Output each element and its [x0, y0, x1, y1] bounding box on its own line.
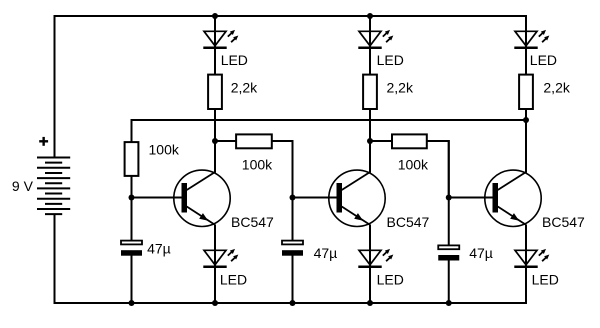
wire: stage 2 capacitor lower lead to ground rail: [292, 255, 294, 304]
junction node top rail / D1 anode: [212, 13, 218, 19]
wire: stage 3 base node column down to capacitor: [448, 140, 450, 246]
wire: stage 2 emitter column (transistor through LED to ground rail): [369, 224, 371, 304]
junction node stage 3 base: [446, 195, 452, 201]
junction node stage 2 base: [290, 195, 296, 201]
resistor R2 100k (stage 1 base bias): [125, 142, 139, 176]
wire: feedback from Q3 collector node to R2 (y=120): [132, 119, 527, 121]
svg-text:LED: LED: [221, 52, 248, 68]
wire: stage 3 base wire: [449, 197, 494, 199]
transistor Q3 (BC547, NPN): [485, 170, 541, 226]
junction node ground rail / C2: [290, 300, 296, 306]
wire: stage 1 capacitor lower lead to ground rail: [131, 255, 133, 304]
junction node ground rail / stage 1 LED cathode: [212, 300, 218, 306]
capacitor C1 (47µ electrolytic): [121, 241, 142, 256]
svg-text:2,2k: 2,2k: [387, 80, 414, 96]
svg-text:BC547: BC547: [387, 214, 430, 230]
capacitor C3 (47µ electrolytic): [438, 245, 459, 260]
wire: stage 1 base node column down to capacitor: [131, 177, 133, 242]
svg-text:2,2k: 2,2k: [231, 80, 258, 96]
wire: stage 2 collector column (top rail through LED and 2.2k to transistor): [369, 15, 371, 173]
svg-text:9 V: 9 V: [12, 178, 34, 194]
LED D3 (top LED): [358, 30, 393, 48]
transistor Q2 (BC547, NPN): [329, 170, 385, 226]
LED D4 (bottom LED): [358, 249, 393, 267]
LED D1 (top LED): [203, 30, 238, 48]
junction node Q2 collector branch: [367, 138, 373, 144]
battery BT1 9V multi-cell: [37, 158, 70, 215]
wire: R3 to Q2 base node: [272, 141, 293, 198]
svg-text:BC547: BC547: [231, 214, 274, 230]
svg-text:LED: LED: [532, 272, 559, 288]
svg-text:100k: 100k: [242, 156, 273, 172]
junction node ground rail / stage 2 LED cathode: [367, 300, 373, 306]
svg-text:LED: LED: [377, 272, 404, 288]
resistor R4 2.2k: [363, 75, 377, 109]
resistor R1 2.2k: [208, 75, 222, 109]
junction node stage 1 base: [129, 195, 135, 201]
transistor Q1 (BC547, NPN): [174, 170, 230, 226]
svg-text:100k: 100k: [398, 156, 429, 172]
junction node Q1 collector branch: [212, 138, 218, 144]
junction node ground rail / C1: [129, 300, 135, 306]
capacitor C2 (47µ electrolytic): [282, 241, 303, 256]
svg-text:100k: 100k: [149, 142, 180, 158]
svg-text:LED: LED: [377, 52, 404, 68]
wire: stage 3 collector column (top rail through LED and 2.2k to transistor): [525, 15, 527, 173]
junction node ground rail / C3: [446, 300, 452, 306]
wire: stage 1 base wire: [132, 197, 183, 199]
wire: stage 2 base node column down to capacitor: [292, 140, 294, 241]
wire: R5 to Q3 base node: [427, 141, 449, 198]
svg-text:LED: LED: [220, 272, 247, 288]
wire: stage 2 base wire: [293, 197, 338, 199]
resistor R6 2.2k: [519, 75, 533, 109]
battery plus sign: [39, 137, 48, 146]
wire: stage 1 collector column (top rail through LED and 2.2k to transistor): [214, 15, 216, 173]
svg-text:47µ: 47µ: [469, 245, 493, 261]
wire: Q1 collector node to R3: [215, 140, 237, 142]
LED D6 (bottom LED): [514, 249, 549, 267]
wire: battery minus lead and bottom ground rail: [55, 214, 527, 303]
svg-text:BC547: BC547: [542, 214, 585, 230]
junction node Q3 collector / feedback wire: [523, 117, 529, 123]
svg-text:47µ: 47µ: [147, 240, 171, 256]
junction node top rail / D3 anode: [367, 13, 373, 19]
wire: stage 1 emitter column (transistor through LED to ground rail): [214, 224, 216, 304]
wire: Q2 collector node to R5: [370, 140, 393, 142]
wire: positive supply top rail with left drop to battery plus terminal: [55, 16, 527, 158]
resistor R3 100k (couples stage 1 collector to stage 2 base): [236, 134, 272, 148]
svg-text:2,2k: 2,2k: [543, 80, 570, 96]
svg-text:47µ: 47µ: [314, 245, 338, 261]
wire: stage 3 capacitor lower lead to ground rail: [448, 260, 450, 304]
wire: R2 top lead up to feedback wire: [131, 119, 133, 143]
svg-text:LED: LED: [530, 52, 557, 68]
LED D2 (bottom LED): [203, 249, 238, 267]
wire: stage 3 emitter column (transistor through LED to ground rail): [525, 224, 527, 304]
resistor R5 100k (couples stage 2 collector to stage 3 base): [392, 134, 427, 148]
LED D5 (top LED): [514, 30, 549, 48]
